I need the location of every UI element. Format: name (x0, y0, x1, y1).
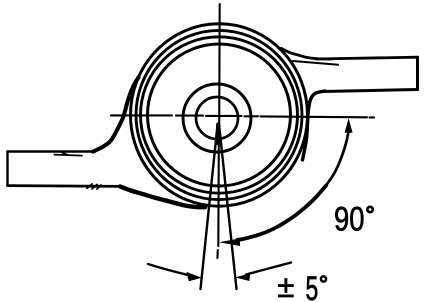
inner circle (bushing bore) (196, 97, 238, 139)
outer ring 3 (141, 37, 298, 193)
90 degree dimension arc lower part (238, 186, 327, 240)
left arm overlap tick (62, 153, 67, 155)
degree symbol of 5 (321, 276, 326, 281)
horizontal centerline (111, 115, 367, 117)
left arm hatch tick 1 (87, 184, 92, 188)
right arm bottom flange curve down to housing ring (303, 91, 326, 160)
outer ring 2 (136, 30, 302, 199)
right arm inner tangent line (293, 61, 338, 65)
outer ring 4 (inner edge of housing) (148, 44, 291, 186)
right arm top tangent curve from housing ring (281, 48, 332, 59)
left arm hatch tick 2 (92, 184, 97, 188)
vertical centerline (218, 4, 219, 246)
right arm bottom edge (323, 90, 418, 92)
right arm right edge (416, 57, 419, 89)
left arm overlap mark (line under top edge) (54, 155, 82, 156)
90 arc east arrowhead (points up at horizontal centerline) (345, 118, 353, 133)
left arm hatch tick 3 (97, 185, 101, 189)
90 arc south arrowhead (points left at vertical centerline) (219, 238, 240, 246)
plus-minus 5 degree right limit line (219, 124, 237, 289)
right arm top edge (316, 57, 418, 59)
fork overlap blob below center (216, 125, 221, 144)
plus-minus 5 degree left limit line (201, 124, 218, 289)
svg-text:90: 90 (334, 201, 365, 239)
plus-minus 5 right arrowhead (points left at right limit line) (235, 273, 250, 281)
plus-minus 5 right leader curve (246, 263, 291, 275)
plus-minus 5 left arrowhead (points right at left limit line) (187, 272, 202, 281)
svg-text:5: 5 (306, 270, 319, 302)
svg-text:±: ± (277, 269, 294, 302)
left arm bottom edge (8, 184, 123, 188)
horizontal centerline end dash (370, 116, 375, 118)
left arm top fillet curve up to housing ring (93, 77, 139, 151)
left arm bottom flange curve to housing ring (120, 186, 205, 207)
plus-minus 5 left leader curve (148, 264, 191, 276)
outer ring 1 (outermost housing circle) (131, 24, 308, 206)
degree symbol of 90 (367, 207, 372, 212)
90 degree dimension arc upper part (326, 131, 349, 186)
left arm left edge (6, 152, 8, 186)
left arm top edge (8, 150, 95, 153)
vertical centerline end dash (216, 250, 219, 258)
middle circle (bushing outer sleeve) (183, 84, 251, 152)
